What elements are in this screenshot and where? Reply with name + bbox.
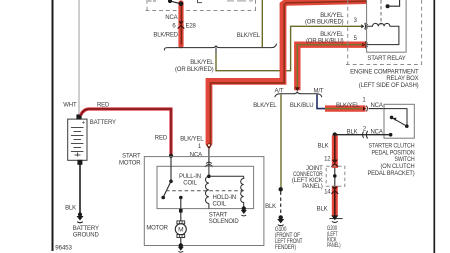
svg-text:PEDAL BRACKET): PEDAL BRACKET) xyxy=(368,171,415,177)
ground G200 xyxy=(329,215,342,222)
hold-in coil xyxy=(241,176,244,208)
svg-text:BLK/YEL: BLK/YEL xyxy=(320,13,344,19)
A/T - M/T split brace xyxy=(275,92,322,98)
relay contact xyxy=(386,0,400,8)
ignition switch contacts xyxy=(148,0,253,6)
node motor ground xyxy=(179,243,183,247)
svg-text:MOTOR: MOTOR xyxy=(119,160,141,166)
battery xyxy=(68,119,87,160)
svg-text:BLK/YEL: BLK/YEL xyxy=(336,103,360,109)
svg-text:14: 14 xyxy=(324,189,331,195)
svg-text:A/T: A/T xyxy=(275,89,284,95)
svg-text:BLK/YEL: BLK/YEL xyxy=(237,33,261,39)
connector 1 NCA at solenoid xyxy=(205,144,213,167)
svg-text:BLK: BLK xyxy=(65,205,76,211)
connector clutch pin 2 xyxy=(363,131,368,139)
motor switch contact xyxy=(161,158,172,200)
svg-text:ENGINE COMPARTMENT: ENGINE COMPARTMENT xyxy=(350,69,419,75)
ground hold-in coil xyxy=(241,210,247,216)
svg-text:(ON CLUTCH: (ON CLUTCH xyxy=(381,164,415,170)
svg-text:M/T: M/T xyxy=(314,89,324,95)
svg-text:STARTER CLUTCH: STARTER CLUTCH xyxy=(369,144,415,150)
ground G100 xyxy=(277,219,284,226)
svg-text:NCA: NCA xyxy=(371,103,383,109)
wire BLK/YEL A/T branch down to G100 xyxy=(280,95,282,189)
svg-text:(LEFT SIDE OF DASH): (LEFT SIDE OF DASH) xyxy=(359,83,419,89)
battery + terminal xyxy=(76,114,81,119)
engine compartment relay box (dashed) xyxy=(346,0,422,65)
node splice clutch to G200 xyxy=(333,132,338,137)
svg-text:START: START xyxy=(209,213,228,219)
svg-text:RED: RED xyxy=(155,136,168,142)
svg-text:PEDAL POSITION: PEDAL POSITION xyxy=(372,150,415,156)
wire BLK to G200 (red highlight) xyxy=(332,136,338,217)
svg-text:E28: E28 xyxy=(186,23,197,29)
svg-text:NCA: NCA xyxy=(165,15,177,21)
svg-text:SWITCH: SWITCH xyxy=(395,157,415,163)
svg-text:(OR BLK/BLU): (OR BLK/BLU) xyxy=(306,39,344,45)
start solenoid box xyxy=(157,166,254,208)
svg-text:BLK: BLK xyxy=(317,206,328,212)
motor M xyxy=(175,221,186,245)
link to hold-in coil xyxy=(209,175,244,177)
wire BLK/YEL to clutch switch pin 1 (red highlight) xyxy=(325,105,366,111)
ground battery xyxy=(77,216,84,223)
svg-text:BLK/BLU: BLK/BLU xyxy=(290,103,314,109)
svg-text:COIL: COIL xyxy=(183,180,197,186)
wire dashed to G100 xyxy=(280,192,282,216)
connector E28 pin 6 xyxy=(178,21,185,28)
wire BLK/YEL relay contact to start solenoid (red highlight) xyxy=(209,1,367,145)
connector 12 xyxy=(331,160,338,167)
ground motor xyxy=(178,247,184,252)
svg-text:PANEL): PANEL) xyxy=(327,243,341,249)
svg-text:12: 12 xyxy=(324,156,331,162)
motor feed contact and wire xyxy=(179,196,183,221)
svg-text:96453: 96453 xyxy=(55,245,72,252)
svg-text:6: 6 xyxy=(172,23,176,29)
svg-text:BLK: BLK xyxy=(265,204,276,210)
node hold-in ground xyxy=(242,206,246,210)
wire BLK/YEL (OR BLK/RED) to relay coil pin 3 xyxy=(215,48,217,53)
svg-text:1: 1 xyxy=(362,98,366,104)
ignition switch (dashed box, cut off at top) xyxy=(146,0,257,11)
svg-text:3: 3 xyxy=(354,18,358,24)
svg-text:BLK/RED: BLK/RED xyxy=(153,33,178,39)
svg-text:NCA: NCA xyxy=(371,130,383,136)
svg-text:5: 5 xyxy=(354,36,358,42)
svg-text:GROUND: GROUND xyxy=(73,232,100,238)
svg-text:SOLENOID: SOLENOID xyxy=(209,219,240,225)
solenoid linkage (dashed) xyxy=(166,190,244,192)
wire BLK/YEL (OR BLK/BLU) relay pin 5 (red highlight) xyxy=(295,45,367,91)
svg-text:BLK/YEL: BLK/YEL xyxy=(180,136,204,142)
start motor box xyxy=(144,157,264,246)
wire WHT to battery xyxy=(78,0,80,115)
svg-text:BLK: BLK xyxy=(318,144,329,150)
battery - terminal xyxy=(77,160,82,165)
connector pin 3 xyxy=(361,23,368,30)
relay armature dashed link xyxy=(380,0,382,25)
svg-text:BLK/YEL: BLK/YEL xyxy=(320,32,344,38)
svg-text:(OR BLK/RED): (OR BLK/RED) xyxy=(305,20,344,26)
wire RED battery to start motor (red highlight) xyxy=(81,109,174,158)
svg-text:JOINT: JOINT xyxy=(306,166,323,172)
svg-text:MOTOR: MOTOR xyxy=(146,226,168,232)
clutch switch internals xyxy=(384,109,409,137)
svg-text:+: + xyxy=(82,120,86,127)
svg-text:START: START xyxy=(122,153,141,159)
svg-text:M: M xyxy=(178,227,183,234)
node pull-in top xyxy=(207,175,211,179)
battery ground node xyxy=(78,212,82,216)
wire BLK/BLU M/T branch xyxy=(317,94,326,108)
wire BLK clutch pin 2 xyxy=(336,134,390,136)
splice line (brace split of BLK/RED) xyxy=(164,44,276,51)
svg-text:HOLD-IN: HOLD-IN xyxy=(213,195,237,201)
start relay box xyxy=(367,0,407,52)
svg-text:WHT: WHT xyxy=(63,103,77,109)
svg-text:RELAY BOX: RELAY BOX xyxy=(386,76,418,82)
svg-text:BATTERY: BATTERY xyxy=(73,226,99,232)
wire BLK/YEL stub up (cropped) xyxy=(261,0,263,47)
svg-text:BLK: BLK xyxy=(347,130,358,136)
svg-text:FENDER): FENDER) xyxy=(275,245,296,251)
svg-text:NCA: NCA xyxy=(190,153,202,159)
svg-text:START RELAY: START RELAY xyxy=(367,56,405,62)
relay coil xyxy=(367,23,399,44)
svg-text:G100: G100 xyxy=(275,227,287,233)
pull-in coil xyxy=(205,166,208,208)
svg-text:COIL: COIL xyxy=(213,201,227,207)
starter clutch pedal position switch box xyxy=(384,104,414,138)
svg-text:(OR BLK/RED): (OR BLK/RED) xyxy=(175,67,214,73)
wire BLK battery ground xyxy=(79,165,81,215)
svg-text:PULL-IN: PULL-IN xyxy=(179,174,201,180)
svg-text:BLK/YEL: BLK/YEL xyxy=(190,60,214,66)
page border right xyxy=(433,0,435,253)
joint connector (dashed box) xyxy=(326,166,345,186)
wire BLK/RED from ignition (red highlight) xyxy=(178,3,183,46)
page border left xyxy=(52,0,54,251)
svg-text:1: 1 xyxy=(198,144,202,150)
node G100 splice top xyxy=(279,187,283,191)
connector clutch pin 1 xyxy=(363,106,384,112)
svg-text:BATTERY: BATTERY xyxy=(90,120,116,126)
svg-text:BLK/YEL: BLK/YEL xyxy=(253,103,277,109)
connector pin 5 xyxy=(362,41,368,48)
node G100 bottom xyxy=(279,215,283,219)
svg-text:PANEL): PANEL) xyxy=(302,184,322,190)
joint connector internal xyxy=(333,168,337,186)
connector 14 xyxy=(331,187,338,194)
